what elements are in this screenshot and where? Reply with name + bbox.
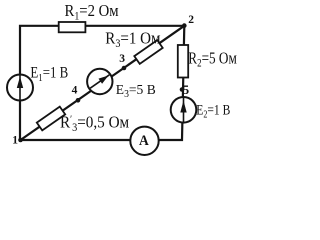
svg-text:4: 4 [72, 85, 78, 97]
svg-text:R1=2 Ом: R1=2 Ом [65, 2, 119, 23]
svg-text:3: 3 [119, 53, 125, 65]
svg-text:2: 2 [188, 14, 194, 26]
svg-text:R2=5 Ом: R2=5 Ом [188, 49, 237, 70]
svg-text:1: 1 [12, 135, 18, 147]
svg-text:E1=1 В: E1=1 В [30, 64, 68, 84]
svg-text:5: 5 [183, 82, 190, 97]
svg-text:R3=1 Ом: R3=1 Ом [105, 30, 160, 50]
svg-text:A: A [139, 132, 149, 149]
